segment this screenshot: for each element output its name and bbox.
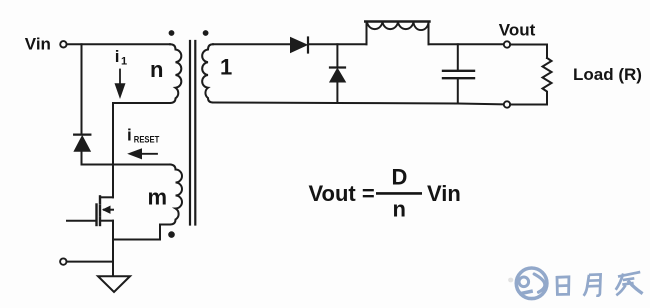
diode D1 reset (pointing up) [74, 135, 90, 165]
wire bottom rail [213, 103, 504, 105]
transformer primary winding n [170, 44, 181, 103]
node Vin terminal [60, 41, 66, 47]
svg-text:Vin: Vin [427, 181, 461, 206]
wire terminal to source node [67, 261, 113, 263]
svg-text:n: n [150, 57, 163, 82]
transformer secondary winding 1 [202, 44, 213, 102]
capacitor C1 [443, 44, 474, 103]
watermark character chen (dragon) [616, 272, 643, 295]
diode D2 series (pointing right) [291, 38, 309, 53]
node output bottom terminal [504, 101, 510, 107]
wire reset-diode branch down from rail [81, 44, 83, 133]
svg-text:Load (R): Load (R) [573, 65, 642, 84]
svg-text:Vout: Vout [499, 21, 536, 40]
inductor L1 [365, 22, 429, 45]
wire secondary top lead to diode [213, 43, 290, 45]
transistor Q1 MOSFET [67, 196, 113, 225]
watermark character yue (moon) [584, 274, 601, 295]
svg-text:n: n [393, 197, 406, 222]
resistor Load (R) zigzag [543, 58, 552, 104]
svg-text:1: 1 [220, 55, 232, 80]
wire rail inductor to Vout [429, 43, 504, 45]
watermark smudge [508, 278, 513, 283]
svg-text:D: D [392, 165, 408, 190]
watermark logo circle [516, 268, 547, 299]
label formula Vout = D/n Vin [309, 165, 461, 222]
wire top-left rail from Vin to primary [67, 43, 170, 45]
svg-text:Vout =: Vout = [309, 181, 375, 206]
transformer reset winding m [170, 165, 182, 225]
svg-text:m: m [148, 185, 168, 210]
svg-text:RESET: RESET [134, 134, 160, 145]
wire rail Vout to load [510, 45, 547, 59]
wire MOSFET drain up [112, 103, 114, 197]
svg-text:Vin: Vin [25, 34, 51, 53]
wire reset winding bottom lead [113, 225, 170, 240]
wire bottom rail terminal to load [510, 104, 547, 106]
wire MOSFET source down to ground [112, 221, 114, 276]
svg-text:i: i [115, 47, 120, 66]
watermark character ri (sun) [557, 277, 569, 295]
node phase dot primary [169, 30, 175, 36]
node gate-return terminal [60, 258, 66, 264]
node phase dot reset winding [168, 231, 175, 238]
svg-text:i: i [127, 126, 132, 145]
transformer core bars [189, 41, 191, 225]
svg-text:1: 1 [121, 56, 127, 68]
arrow iRESET (left) [129, 149, 158, 159]
wire primary bottom lead [113, 103, 170, 197]
diode D3 freewheeling (pointing up) [330, 44, 346, 103]
node Vout terminal [504, 41, 510, 47]
ground [98, 276, 130, 292]
wire from diode anode to reset winding top [82, 164, 171, 166]
arrow i1 (down) [115, 69, 125, 98]
node phase dot secondary [203, 30, 209, 36]
wire rail diode to inductor [308, 43, 367, 45]
